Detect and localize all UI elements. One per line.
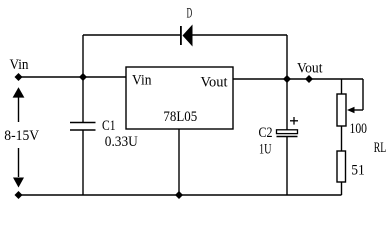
svg-text:78L05: 78L05: [163, 109, 197, 125]
svg-text:0.33U: 0.33U: [105, 134, 138, 150]
potentiometer body 100: [337, 94, 346, 126]
node input junction: [79, 73, 87, 81]
wire main left: [19, 76, 127, 78]
wire C1 bottom: [82, 130, 84, 195]
wire pot top: [341, 79, 343, 94]
potentiometer wiper arrow: [347, 107, 355, 113]
node output junction: [283, 75, 291, 83]
wire C2 top: [286, 79, 288, 130]
wire top diode to right: [193, 34, 288, 36]
diode D cathode bar: [180, 26, 182, 45]
node ground center: [175, 191, 183, 199]
svg-text:1U: 1U: [259, 141, 272, 157]
wire main right: [233, 78, 363, 80]
wire pot to RL: [341, 126, 343, 151]
svg-text:Vin: Vin: [132, 73, 152, 89]
wire arrow shaft bottom: [18, 148, 20, 177]
wire C2 bottom: [286, 137, 288, 196]
arrow down 8-15V: [13, 178, 24, 188]
wire wiper feed down: [362, 79, 364, 110]
svg-text:8-15V: 8-15V: [4, 128, 39, 144]
svg-text:100: 100: [350, 121, 368, 137]
svg-text:C1: C1: [102, 118, 116, 134]
wire top branch down: [286, 35, 288, 79]
wire ground pin 78L05: [178, 129, 180, 195]
wire arrow shaft top: [18, 97, 20, 122]
svg-text:51: 51: [351, 163, 365, 179]
svg-text:D: D: [187, 6, 193, 22]
diode D triangle: [183, 25, 193, 47]
node Vout terminal: [305, 75, 313, 83]
wire RL bottom: [341, 182, 343, 195]
svg-text:C2: C2: [259, 125, 273, 141]
wire C1 top: [82, 77, 84, 122]
capacitor C1 plates: [70, 123, 96, 131]
wire wiper horizontal: [354, 109, 364, 111]
wire top left to diode: [83, 34, 180, 36]
resistor RL body 51: [337, 151, 346, 182]
svg-text:Vout: Vout: [201, 74, 229, 90]
wire bottom rail: [19, 194, 342, 196]
wire branch up from input junction: [82, 35, 84, 77]
capacitor C2 bottom plate: [277, 136, 298, 138]
capacitor C2 top plate: [277, 130, 298, 134]
arrow up 8-15V: [13, 87, 25, 97]
label plus C2: [290, 117, 298, 125]
node Vin terminal: [15, 73, 23, 81]
svg-text:Vout: Vout: [297, 61, 323, 77]
svg-text:Vin: Vin: [10, 57, 29, 73]
svg-text:RL: RL: [374, 140, 387, 156]
regulator U1 78L05 box: [126, 67, 233, 129]
node ground left: [15, 191, 23, 199]
